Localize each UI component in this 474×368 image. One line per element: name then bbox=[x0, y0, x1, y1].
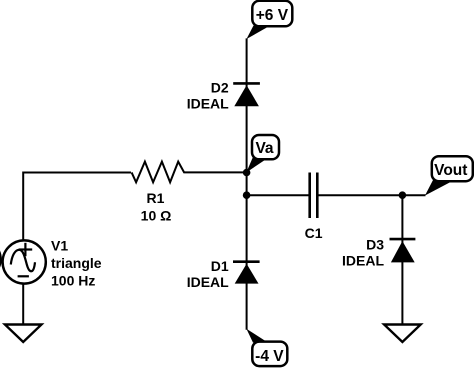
svg-text:D3: D3 bbox=[366, 236, 384, 252]
svg-text:triangle: triangle bbox=[51, 255, 102, 271]
svg-text:R1: R1 bbox=[147, 190, 165, 206]
svg-text:+6 V: +6 V bbox=[256, 7, 289, 24]
svg-text:10 Ω: 10 Ω bbox=[141, 208, 172, 224]
svg-text:IDEAL: IDEAL bbox=[187, 95, 229, 111]
svg-text:Vout: Vout bbox=[434, 162, 467, 179]
svg-text:D1: D1 bbox=[211, 258, 229, 274]
svg-text:IDEAL: IDEAL bbox=[342, 253, 384, 269]
svg-text:D2: D2 bbox=[211, 80, 229, 96]
svg-text:Va: Va bbox=[255, 140, 273, 157]
svg-text:IDEAL: IDEAL bbox=[187, 274, 229, 290]
svg-text:C1: C1 bbox=[305, 225, 323, 241]
svg-text:100 Hz: 100 Hz bbox=[51, 273, 95, 289]
svg-text:-4 V: -4 V bbox=[255, 348, 284, 365]
svg-text:V1: V1 bbox=[51, 238, 68, 254]
